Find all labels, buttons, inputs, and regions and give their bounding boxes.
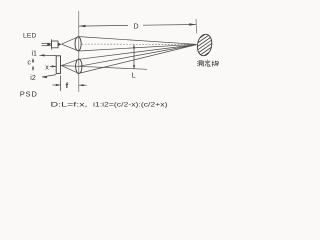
label measurement object (sokuteibutsu kanji drawn as strokes) [197,60,218,67]
svg-text:x: x [45,65,49,72]
kanji 物 [212,61,219,67]
chief ray extension (L reference) [79,66,147,69]
PSD lead i1 [40,54,57,56]
LED optical axis dashed [82,43,195,45]
kanji 定 [205,60,211,66]
kanji 測 [197,61,203,67]
receiver rays object to lens [79,45,197,74]
svg-text:c: c [27,60,31,67]
receiver lens L2 [76,59,82,73]
svg-text:i2: i2 [30,75,36,82]
svg-text:L: L [132,73,136,80]
LED beam rays to object [79,37,197,51]
LED package [42,39,62,49]
svg-text:i1:i2=(c/2-x):(c/2+x): i1:i2=(c/2-x):(c/2+x) [93,102,168,109]
measurement object (hatched) [178,28,236,63]
svg-text:LED: LED [23,32,36,39]
receiver rays lens to PSD spot [61,59,79,73]
LED divergent rays [62,37,79,51]
svg-text:PSD: PSD [20,89,38,98]
spot offset x arrow [50,65,56,67]
dimension c [32,58,34,71]
lens plane axis line [78,11,80,92]
svg-text:D:L=f:x,: D:L=f:x, [51,101,88,108]
dimension D [79,23,196,27]
object extension line [195,19,198,34]
PSD chip [56,56,60,74]
LED lens L1 [75,37,81,51]
dimension L [133,45,135,69]
dimension f [53,76,87,92]
svg-text:i1: i1 [32,50,38,57]
PSD lead i2 [42,75,56,79]
svg-text:D: D [134,24,139,31]
